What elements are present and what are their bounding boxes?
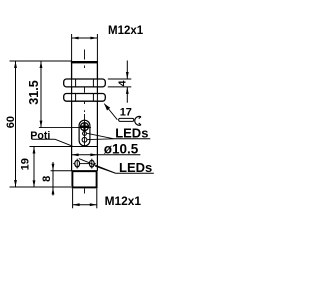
- top face extension line: [10, 60, 72, 62]
- poti/LED window capsule: [79, 120, 90, 146]
- svg-text:ø10.5: ø10.5: [104, 141, 139, 156]
- svg-text:Poti: Poti: [30, 130, 50, 142]
- LED middle: [83, 132, 87, 136]
- barrel sides between nuts: [71, 87, 73, 94]
- boundary line + ext line for 8: [51, 170, 98, 172]
- svg-text:60: 60: [5, 116, 17, 128]
- dimension 19: [20, 147, 36, 188]
- lower LED row crosshair: [73, 163, 74, 165]
- right LED: [89, 160, 94, 167]
- left LED vertical centerline: [76, 159, 78, 169]
- label 17 with wrench symbol and leader arrow: [104, 104, 141, 126]
- potentiometer screw: [81, 123, 89, 131]
- wrench: [119, 118, 134, 121]
- barrel right side: [96, 61, 98, 79]
- housing sides upper: [71, 101, 73, 146]
- left LED: [75, 160, 80, 167]
- bottom dimension M12x1: [73, 188, 97, 208]
- bottom thread section M12x1: [72, 171, 96, 187]
- hex nut 2: [64, 94, 106, 102]
- extension line right of top dim: [96, 34, 98, 61]
- bottom face extension line: [10, 186, 72, 188]
- extension line left of top dim: [71, 34, 73, 61]
- dimension 8: [41, 162, 55, 196]
- centerline axis: [84, 50, 86, 194]
- hex nut 1: [64, 79, 106, 87]
- svg-text:31.5: 31.5: [27, 80, 41, 105]
- LED bottom: [82, 137, 87, 142]
- svg-text:8: 8: [41, 176, 53, 182]
- 31.5 ext line / poti crosshair: [39, 127, 91, 129]
- barrel left side: [71, 61, 73, 79]
- svg-text:17: 17: [120, 107, 132, 119]
- svg-text:4: 4: [117, 80, 129, 86]
- top dimension line M12x1: [72, 37, 98, 40]
- housing sides mid: [71, 147, 73, 171]
- svg-text:M12x1: M12x1: [108, 25, 144, 37]
- dimension 60 left: [5, 61, 17, 187]
- svg-text:LEDs: LEDs: [115, 126, 148, 141]
- sensor barrel top thick edge: [71, 61, 98, 63]
- svg-text:M12x1: M12x1: [105, 194, 142, 208]
- housing step line + ext line for 19: [30, 146, 98, 148]
- dia 10.5 dimension line with underline: [72, 153, 141, 156]
- dimension 31.5: [27, 61, 42, 128]
- right LED vertical centerline: [91, 159, 93, 169]
- svg-text:19: 19: [20, 158, 32, 170]
- dimension 4 (nut height): [108, 61, 132, 103]
